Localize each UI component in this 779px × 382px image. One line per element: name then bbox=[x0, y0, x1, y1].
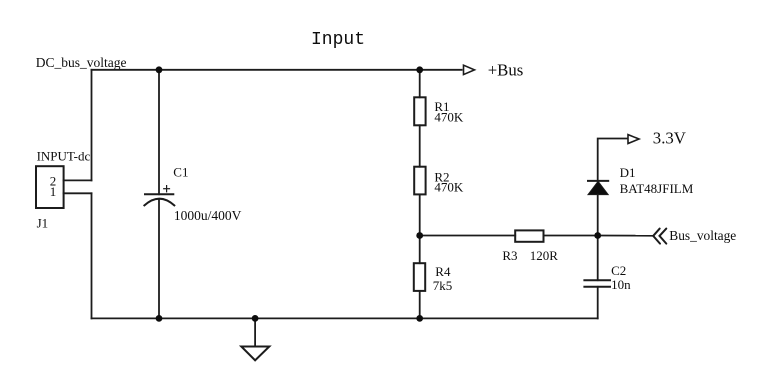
port chevrons Bus_voltage bbox=[653, 229, 666, 244]
wire node-R4 bbox=[419, 236, 421, 264]
junction bottom / ground bbox=[252, 315, 259, 322]
wire R2-node bbox=[419, 194, 421, 235]
capacitor C2 bbox=[584, 280, 610, 287]
resistor R2 bbox=[414, 167, 425, 195]
wire pin 2 stub bbox=[64, 179, 92, 181]
diode D1 bbox=[588, 181, 608, 195]
svg-text:1: 1 bbox=[50, 184, 57, 199]
svg-text:INPUT-dc: INPUT-dc bbox=[37, 148, 91, 163]
svg-text:BAT48JFILM: BAT48JFILM bbox=[620, 181, 694, 196]
wire C1 lower bbox=[158, 199, 160, 318]
svg-text:120R: 120R bbox=[530, 248, 559, 263]
wire R3 to node bbox=[544, 235, 598, 237]
wire R4-bottom bbox=[419, 291, 421, 319]
resistor R1 bbox=[414, 97, 425, 125]
wire bottom rail bbox=[92, 317, 598, 319]
svg-text:+Bus: +Bus bbox=[488, 60, 524, 79]
svg-text:R3: R3 bbox=[502, 248, 517, 263]
svg-text:Bus_voltage: Bus_voltage bbox=[669, 228, 736, 243]
ground bbox=[241, 347, 269, 361]
svg-text:Input: Input bbox=[311, 30, 365, 50]
wire R chain top bbox=[419, 70, 421, 98]
junction top rail / R1 bbox=[416, 66, 423, 73]
svg-text:C1: C1 bbox=[173, 165, 188, 180]
resistor R4 bbox=[414, 263, 425, 291]
wire left vertical lower bbox=[91, 193, 93, 318]
resistor R3 bbox=[515, 230, 543, 241]
capacitor C1 bbox=[144, 186, 174, 206]
wire D1 to node bbox=[597, 195, 599, 236]
wire pin 1 stub bbox=[64, 192, 92, 194]
svg-text:470K: 470K bbox=[434, 110, 464, 125]
svg-text:D1: D1 bbox=[620, 165, 636, 180]
junction bottom / R4 bbox=[416, 315, 423, 322]
junction mid node right bbox=[594, 232, 601, 239]
svg-text:R4: R4 bbox=[435, 264, 451, 279]
svg-text:3.3V: 3.3V bbox=[653, 128, 686, 147]
wire left vertical upper bbox=[91, 70, 93, 181]
wire ground stub bbox=[254, 318, 256, 346]
svg-text:J1: J1 bbox=[37, 215, 49, 230]
wire node to Bus_voltage port bbox=[598, 235, 653, 237]
svg-text:470K: 470K bbox=[434, 180, 464, 195]
wire mid node to R3 bbox=[420, 235, 516, 237]
wire 3.3V stub bbox=[598, 139, 628, 182]
svg-text:10n: 10n bbox=[611, 277, 631, 292]
wire C1 upper bbox=[158, 70, 160, 195]
wire C2 to bottom rail bbox=[597, 287, 599, 319]
svg-text:DC_bus_voltage: DC_bus_voltage bbox=[36, 55, 127, 70]
junction bottom / C1 bbox=[156, 315, 163, 322]
junction top rail / C1 bbox=[156, 66, 163, 73]
junction mid node left bbox=[416, 232, 423, 239]
svg-text:C2: C2 bbox=[611, 263, 626, 278]
svg-text:7k5: 7k5 bbox=[433, 278, 453, 293]
svg-text:1000u/400V: 1000u/400V bbox=[174, 208, 242, 223]
wire top rail bbox=[92, 69, 462, 71]
port arrow +Bus bbox=[464, 65, 475, 74]
wire R1-R2 bbox=[419, 125, 421, 166]
port arrow 3.3V bbox=[628, 135, 639, 144]
connector J1 bbox=[36, 166, 64, 208]
wire node to C2 bbox=[597, 236, 599, 281]
